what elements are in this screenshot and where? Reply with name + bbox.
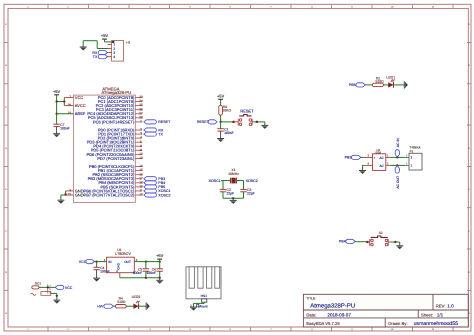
svg-text:10: 10 bbox=[139, 193, 143, 197]
junction (S2 right) bbox=[394, 241, 396, 243]
wire heatsink mount to ground bbox=[194, 302, 205, 307]
net flag TX (H1 pin4) bbox=[93, 55, 108, 59]
wire S2 to ground bbox=[391, 242, 400, 246]
svg-text:XOSC1: XOSC1 bbox=[209, 179, 221, 183]
svg-text:GND: GND bbox=[75, 192, 84, 197]
svg-text:VCC: VCC bbox=[75, 95, 84, 100]
ground (heatsink) bbox=[190, 307, 197, 311]
net flag RX at PD0 bbox=[144, 128, 164, 132]
power +5V symbol (H1) bbox=[101, 33, 113, 42]
ground (LED1, right-pointing) bbox=[404, 81, 408, 88]
capacitor C7 100nF bbox=[53, 123, 69, 131]
svg-text:TX: TX bbox=[158, 132, 163, 136]
svg-text:PB5: PB5 bbox=[349, 83, 356, 87]
crystal X1 16MHz bbox=[228, 168, 239, 184]
svg-text:22pF: 22pF bbox=[227, 192, 235, 196]
regulator U1 L7805CV bbox=[104, 248, 138, 273]
wire crystal to XOSC2 bbox=[237, 180, 244, 182]
svg-text:L7805CV: L7805CV bbox=[115, 252, 131, 256]
svg-text:LED2: LED2 bbox=[132, 295, 141, 299]
capacitor C2 22pF bbox=[220, 188, 234, 196]
wire caps to ground rail bbox=[223, 192, 244, 199]
svg-text:510Ω: 510Ω bbox=[117, 300, 126, 304]
svg-text:P1: P1 bbox=[410, 150, 414, 154]
wire AREF bbox=[57, 113, 74, 115]
svg-text:AC OUT: AC OUT bbox=[396, 176, 400, 189]
svg-text:VCC: VCC bbox=[65, 286, 73, 290]
DC jack DC1 bbox=[31, 281, 56, 295]
net flag PB4 (S2) bbox=[339, 239, 355, 243]
junction (AC IN node) bbox=[396, 156, 398, 158]
resistor R6 10KΩ bbox=[219, 105, 232, 115]
push button S1 RESET bbox=[236, 108, 255, 125]
svg-text:+5V: +5V bbox=[53, 89, 61, 94]
svg-text:TX: TX bbox=[93, 55, 98, 59]
junction (crystal gnd rail) bbox=[232, 197, 234, 199]
wire SSR pin4 to ground bbox=[363, 165, 365, 170]
net flag TX at PD1 bbox=[144, 132, 164, 136]
junction (5V rail) bbox=[145, 260, 147, 262]
svg-text:PB7 (PCINT7XTAL2TOSC2): PB7 (PCINT7XTAL2TOSC2) bbox=[84, 192, 135, 197]
svg-text:PC6 (PCINT14RESET): PC6 (PCINT14RESET) bbox=[93, 119, 135, 124]
LED LED2 bbox=[132, 295, 141, 309]
svg-text:AC IN: AC IN bbox=[396, 138, 400, 148]
net flag PB5 (LED1) bbox=[349, 83, 365, 87]
junction (H1 pin1) bbox=[112, 41, 115, 44]
wire node to button bbox=[221, 121, 236, 123]
junction (gnd rail) bbox=[145, 277, 147, 279]
wire R2 to LED1 bbox=[384, 84, 389, 86]
wire SSR pin2 to T-Block pin1 bbox=[390, 164, 405, 166]
svg-text:PD7 (PCINT23AIN1): PD7 (PCINT23AIN1) bbox=[97, 156, 135, 161]
power +5V symbol (regulator out) bbox=[156, 253, 164, 261]
svg-text:2018-09-07: 2018-09-07 bbox=[327, 312, 351, 317]
svg-text:EasyEDA V5.7.26: EasyEDA V5.7.26 bbox=[306, 321, 340, 326]
svg-text:+5V: +5V bbox=[156, 253, 164, 258]
junction (GND pins) bbox=[64, 193, 67, 196]
capacitor C5 100nF bbox=[133, 262, 149, 278]
wire GND pins to ground bbox=[61, 191, 74, 200]
junction (AC OUT node) bbox=[396, 164, 398, 166]
svg-text:G: G bbox=[5, 271, 7, 274]
svg-text:100nF: 100nF bbox=[146, 271, 156, 275]
svg-text:XOSC2: XOSC2 bbox=[246, 179, 258, 183]
capacitor C6 100nF bbox=[146, 262, 162, 278]
svg-text:1.0: 1.0 bbox=[447, 303, 454, 308]
IC U3 ATmega328-PU bbox=[68, 87, 143, 203]
svg-text:OUT: OUT bbox=[124, 260, 131, 264]
svg-text:SSR: SSR bbox=[375, 150, 381, 154]
svg-text:AVCC: AVCC bbox=[75, 103, 86, 108]
svg-text:S2: S2 bbox=[379, 231, 383, 235]
ground (crystal) bbox=[230, 198, 237, 204]
junction (DC jack gnd) bbox=[56, 295, 58, 297]
net port AC IN bbox=[395, 138, 400, 157]
svg-text:RESET: RESET bbox=[158, 120, 171, 124]
junction dots (power column) bbox=[55, 100, 57, 102]
junction (DC jack pin) bbox=[47, 286, 49, 288]
svg-text:Mount: Mount bbox=[198, 305, 207, 309]
svg-text:G: G bbox=[468, 271, 470, 274]
LED LED1 bbox=[386, 75, 395, 87]
wire R4 to LED2 bbox=[126, 305, 133, 307]
wire flag to S2 bbox=[355, 241, 368, 243]
svg-text:HS1: HS1 bbox=[201, 294, 208, 298]
heatsink HS1 bbox=[186, 267, 221, 302]
net flag PB3 bbox=[144, 177, 165, 181]
svg-text:LED1: LED1 bbox=[386, 75, 395, 79]
svg-text:AC: AC bbox=[379, 156, 384, 160]
wire LED1 to ground bbox=[394, 84, 405, 86]
ground (S2) bbox=[396, 246, 403, 250]
svg-text:20: 20 bbox=[68, 103, 72, 107]
junction (C4 node) bbox=[95, 260, 97, 262]
capacitor C3 22pF bbox=[240, 188, 254, 196]
svg-text:100nF: 100nF bbox=[133, 271, 143, 275]
net flag XOSC1 at PB6 bbox=[144, 189, 171, 193]
wire flag to SSR pin3 bbox=[361, 156, 364, 158]
svg-text:REV:: REV: bbox=[436, 303, 446, 308]
svg-text:AREF: AREF bbox=[75, 111, 86, 116]
svg-text:AC: AC bbox=[379, 164, 384, 168]
svg-text:Atmega328P-PU: Atmega328P-PU bbox=[310, 303, 355, 310]
capacitor C4 100nF bbox=[93, 262, 109, 278]
connector H1 bbox=[108, 40, 131, 61]
power +5V symbol (chip left) bbox=[53, 89, 61, 124]
svg-text:16MHz: 16MHz bbox=[228, 172, 239, 176]
wire VCC to IN bbox=[95, 261, 107, 263]
ground (reset button) bbox=[261, 125, 268, 128]
ground (LED2, right-pointing) bbox=[146, 303, 150, 310]
junction (S2 left) bbox=[366, 241, 369, 244]
svg-text:RESET: RESET bbox=[197, 120, 210, 124]
svg-text:1: 1 bbox=[140, 119, 142, 123]
wire jack switch to ground bbox=[51, 293, 57, 300]
wire ground rail bbox=[120, 273, 160, 278]
net flag PB4 bbox=[144, 181, 165, 185]
svg-text:Sheet:: Sheet: bbox=[421, 312, 433, 317]
ground (DC jack) bbox=[53, 300, 60, 304]
svg-text:PB4: PB4 bbox=[339, 240, 346, 244]
wire button to ground bbox=[254, 122, 265, 125]
svg-text:7: 7 bbox=[69, 95, 71, 99]
ground (H1) bbox=[80, 47, 87, 51]
net flag +5V (LED2) bbox=[97, 304, 114, 308]
wire left to C2 bbox=[222, 181, 224, 190]
net flag VCC (DC jack) bbox=[55, 285, 73, 289]
power +5V symbol (reset) bbox=[217, 93, 225, 105]
svg-text:510Ω: 510Ω bbox=[375, 80, 384, 84]
wire XOSC1 to crystal bbox=[221, 180, 230, 182]
svg-text:VCC: VCC bbox=[79, 260, 87, 264]
capacitor C1 100nF bbox=[217, 122, 233, 139]
junction (button right) bbox=[256, 121, 258, 123]
ground (SSR) bbox=[359, 171, 366, 175]
svg-text:TITLE:: TITLE: bbox=[306, 297, 316, 301]
wire flag to R4 bbox=[114, 305, 116, 307]
push button S2 bbox=[367, 231, 390, 246]
resistor R2 510Ω bbox=[373, 76, 385, 86]
svg-text:H1: H1 bbox=[126, 40, 130, 44]
svg-text:+5V: +5V bbox=[217, 93, 225, 98]
resistor R4 510Ω bbox=[115, 297, 126, 308]
svg-text:22pF: 22pF bbox=[247, 192, 255, 196]
svg-text:22: 22 bbox=[68, 192, 72, 196]
net flag VCC (regulator input) bbox=[79, 260, 95, 264]
svg-text:+5V: +5V bbox=[101, 33, 109, 38]
svg-text:RESET: RESET bbox=[240, 108, 254, 113]
wire OUT to +5V bbox=[134, 261, 159, 263]
svg-text:100nF: 100nF bbox=[60, 126, 70, 130]
svg-text:PB3: PB3 bbox=[345, 156, 352, 160]
ground (C4) bbox=[93, 278, 100, 282]
svg-text:Date:: Date: bbox=[306, 312, 316, 317]
svg-text:100nF: 100nF bbox=[224, 131, 234, 135]
ground (C1) bbox=[217, 139, 224, 143]
svg-text:Drawn By:: Drawn By: bbox=[388, 321, 407, 326]
title block bbox=[303, 294, 468, 327]
svg-text:usmanmehmood55: usmanmehmood55 bbox=[414, 321, 459, 327]
svg-text:+: + bbox=[374, 156, 376, 160]
svg-text:21: 21 bbox=[68, 111, 72, 115]
net flag XOSC2 at PB7 bbox=[144, 193, 171, 197]
svg-text:DC1: DC1 bbox=[35, 281, 42, 285]
wire H1 pin2 to ground bbox=[83, 41, 107, 49]
net flag RESET (circuit) bbox=[197, 120, 217, 124]
wire right to C3 bbox=[243, 181, 245, 190]
ground (regulator rail) bbox=[156, 278, 163, 284]
svg-text:10KΩ: 10KΩ bbox=[222, 109, 231, 113]
net flag PB5 bbox=[144, 185, 165, 189]
svg-text:+5V: +5V bbox=[97, 305, 104, 309]
svg-text:XOSC2: XOSC2 bbox=[158, 193, 170, 197]
svg-text:13: 13 bbox=[139, 156, 143, 160]
net port AC OUT bbox=[395, 166, 400, 189]
net flag RX (H1 pin3) bbox=[92, 51, 107, 55]
solid state relay U2 SSR bbox=[364, 148, 390, 171]
wire LED2 to ground bbox=[139, 305, 147, 307]
svg-text:4: 4 bbox=[113, 55, 115, 59]
ground (chip GND) bbox=[57, 200, 64, 204]
svg-text:1/1: 1/1 bbox=[437, 312, 444, 317]
wire SSR pin1 to T-Block pin2 bbox=[390, 156, 405, 158]
net flag PB3 (SSR) bbox=[345, 155, 361, 159]
junction (reset node) bbox=[219, 121, 221, 123]
net flag RESET at PC6 bbox=[144, 120, 171, 124]
ground (C7) bbox=[53, 127, 60, 138]
terminal block P1 T-Block bbox=[405, 146, 422, 170]
wire R6 to node bbox=[220, 115, 222, 122]
wire VCC/AVCC bracket bbox=[57, 98, 74, 106]
wire flag to R2 bbox=[365, 84, 372, 86]
